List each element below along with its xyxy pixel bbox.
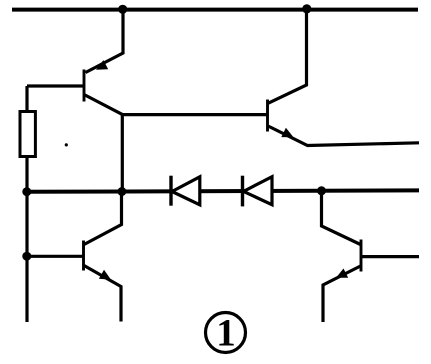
svg-text:1: 1 (216, 312, 236, 355)
